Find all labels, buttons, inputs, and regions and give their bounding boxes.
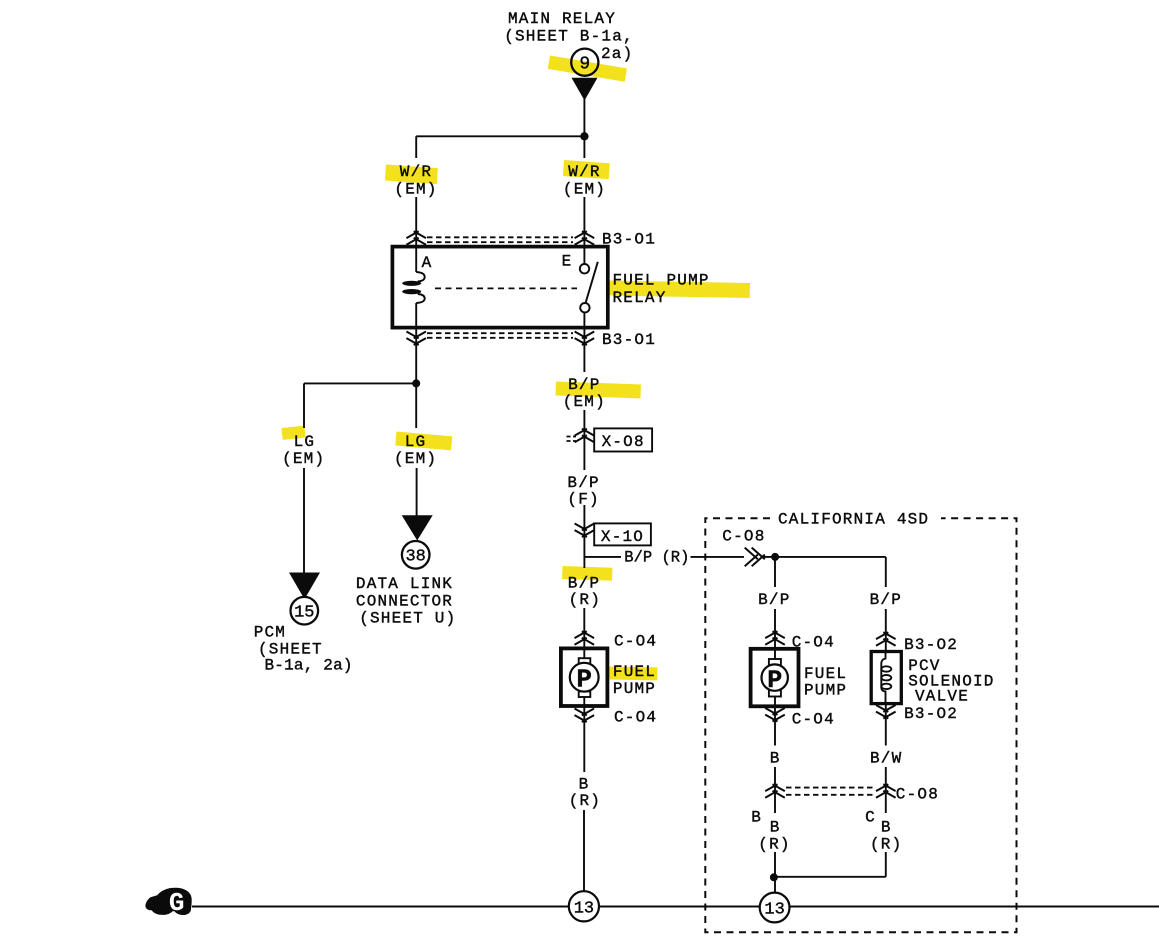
relay box FUEL PUMP RELAY xyxy=(392,247,607,328)
svg-text:C-O4: C-O4 xyxy=(614,709,657,727)
wire CA left B segment through C-08 chevron xyxy=(774,767,776,813)
connector circle 9 to main relay xyxy=(571,49,598,76)
svg-text:X-O8: X-O8 xyxy=(602,433,645,451)
connector chevron B3-02 below PCV valve xyxy=(876,705,896,719)
PCV solenoid valve box xyxy=(871,652,901,704)
connector chevron X-08 xyxy=(575,429,595,443)
wire right W/R segment down to relay xyxy=(583,197,585,247)
svg-text:C: C xyxy=(865,809,876,827)
svg-text:X-1O: X-1O xyxy=(601,528,644,546)
svg-text:(EM): (EM) xyxy=(282,450,325,468)
fuel pump box xyxy=(561,648,608,706)
junction node California branch xyxy=(771,553,779,561)
svg-text:(SHEET B-1a,: (SHEET B-1a, xyxy=(504,28,634,46)
svg-text:B3-O1: B3-O1 xyxy=(602,231,656,249)
svg-text:C-O4: C-O4 xyxy=(792,711,835,729)
svg-text:PCM: PCM xyxy=(254,624,286,642)
ground symbol car body xyxy=(145,888,191,915)
CA fuel pump lower terminal xyxy=(769,690,781,696)
svg-text:PUMP: PUMP xyxy=(613,680,656,698)
svg-text:B3-O2: B3-O2 xyxy=(904,705,958,723)
connector chevron C-04 above CA fuel pump xyxy=(765,631,785,645)
connector chevrons B3-01 left bottom xyxy=(406,332,426,346)
svg-text:FUEL: FUEL xyxy=(804,665,847,683)
fuel pump lower terminal xyxy=(579,691,591,697)
svg-text:CALIFORNIA 4SD: CALIFORNIA 4SD xyxy=(778,511,929,529)
svg-text:B: B xyxy=(770,750,781,768)
svg-text:B3-O2: B3-O2 xyxy=(904,636,958,654)
arrow from main relay xyxy=(572,78,598,101)
svg-text:MAIN RELAY: MAIN RELAY xyxy=(508,10,616,28)
svg-text:B/P (R): B/P (R) xyxy=(624,549,689,567)
highlight marker over FUEL PUMP RELAY label xyxy=(607,281,750,298)
wire LG segment to PCM arrow xyxy=(303,468,305,573)
wire B/P (R) horizontal entering California box xyxy=(691,556,745,558)
dashed pair linking B3-01 top connectors xyxy=(427,237,573,242)
highlight marker over FUEL label of fuel pump xyxy=(607,667,657,681)
California 4SD dashed enclosure xyxy=(705,518,1016,932)
svg-text:(R): (R) xyxy=(758,836,790,854)
svg-text:DATA LINK: DATA LINK xyxy=(356,575,453,593)
svg-text:B: B xyxy=(770,819,781,837)
wire B/P (R) segment to fuel pump xyxy=(583,608,585,648)
arrow to PCM xyxy=(289,573,320,600)
svg-text:B/P: B/P xyxy=(870,591,902,609)
stub dashes left of X-08 chevron xyxy=(567,437,577,442)
svg-text:13: 13 xyxy=(764,901,784,920)
wire relay coil lead inside box xyxy=(415,247,417,272)
fuel pump upper terminal xyxy=(579,658,591,664)
svg-text:C-O8: C-O8 xyxy=(722,528,765,546)
svg-text:(R): (R) xyxy=(870,836,902,854)
svg-text:PUMP: PUMP xyxy=(804,682,847,700)
wire LG branch to data link connector xyxy=(415,383,417,428)
wire below relay bottom contact xyxy=(583,311,585,372)
svg-text:B3-O1: B3-O1 xyxy=(602,331,656,349)
svg-text:B-1a, 2a): B-1a, 2a) xyxy=(265,657,353,675)
wire LG branch to PCM xyxy=(303,383,305,428)
connector chevrons B3-01 right top xyxy=(575,231,595,245)
PCV solenoid coil xyxy=(881,652,885,704)
junction node CA ground branch xyxy=(770,873,778,881)
wire CA left B (R) segment to junction dot xyxy=(774,852,776,893)
wire B (R) segment to ground circle 13 xyxy=(583,810,585,891)
wire CA right B/P segment to PCV valve xyxy=(885,609,887,652)
connector chevron C-04 below CA fuel pump xyxy=(765,708,785,722)
svg-text:15: 15 xyxy=(294,604,314,623)
CA fuel pump upper terminal xyxy=(769,659,781,665)
highlight marker over right LG label xyxy=(395,432,452,451)
relay top contact xyxy=(580,264,589,273)
arrow to data link connector xyxy=(402,515,433,540)
connector chevron B3-02 above PCV valve xyxy=(876,632,896,646)
wire inside fuel pump box to terminals xyxy=(583,650,585,706)
svg-text:B/P: B/P xyxy=(758,591,790,609)
svg-text:(EM): (EM) xyxy=(563,181,606,199)
highlight marker over left LG label xyxy=(282,426,306,440)
ground bus wire right section to page edge xyxy=(790,906,1159,908)
highlight marker over B/P (R) label xyxy=(562,566,612,581)
highlight marker over B/P (EM) label xyxy=(556,382,641,399)
wire below PCV valve xyxy=(885,704,887,746)
svg-text:P: P xyxy=(576,665,592,695)
wire junction horizontal branch at top xyxy=(416,135,584,137)
relay switch blade xyxy=(586,262,598,302)
connector chevron X-10 xyxy=(575,524,595,538)
ground bus wire left of circle 13 xyxy=(192,906,569,908)
highlight marker over left W/R label xyxy=(385,165,438,185)
svg-text:G: G xyxy=(169,888,185,918)
wire CA right B (R) segment to bottom corner xyxy=(885,852,887,877)
svg-text:13: 13 xyxy=(574,899,594,918)
wire B/P (F) segment through X-10 xyxy=(583,505,585,568)
wire B/P (R) horizontal toward California circuit xyxy=(584,556,621,558)
fuel pump motor circle xyxy=(570,663,599,692)
ground circle 13 CA xyxy=(760,893,790,923)
svg-text:(EM): (EM) xyxy=(394,450,437,468)
ground bus wire between ground circles xyxy=(599,906,760,908)
svg-text:(R): (R) xyxy=(569,591,601,609)
svg-text:(F): (F) xyxy=(567,491,599,509)
svg-text:CONNECTOR: CONNECTOR xyxy=(356,593,453,611)
wire CA right B/W segment through C-08 chevron xyxy=(885,767,887,813)
junction node at top branch xyxy=(580,132,588,140)
svg-text:VALVE: VALVE xyxy=(915,688,969,706)
wire inside CA fuel pump box to terminals xyxy=(774,650,776,706)
svg-text:C-O4: C-O4 xyxy=(792,634,835,652)
relay coil winding xyxy=(416,272,425,303)
connector circle 38 xyxy=(402,541,430,569)
svg-text:B: B xyxy=(751,809,762,827)
wire below relay coil to junction xyxy=(415,303,417,383)
connector chevron C-08 CA right xyxy=(876,784,896,798)
wire below CA fuel pump xyxy=(774,706,776,745)
label box X-10 xyxy=(594,523,651,545)
svg-text:E: E xyxy=(562,253,573,271)
connector circle 15 xyxy=(291,597,319,625)
wire CA right branch down from corner xyxy=(885,557,887,587)
connector chevrons B3-01 right bottom xyxy=(575,332,595,346)
highlight marker over connector circle 9 xyxy=(548,56,627,82)
connector chevron C-04 below fuel pump xyxy=(575,709,595,723)
relay internal dashed link xyxy=(435,287,577,289)
connector chevron C-08 CA left xyxy=(765,784,785,798)
svg-text:P: P xyxy=(767,666,782,695)
svg-text:A: A xyxy=(422,254,433,272)
wire junction horizontal branch below relay xyxy=(304,382,416,384)
svg-text:2a): 2a) xyxy=(601,45,633,63)
wire B/P (EM) segment through X-08 xyxy=(583,410,585,470)
wire CA bottom horizontal joining branches xyxy=(774,876,886,878)
wire CA left B/P segment to CA fuel pump xyxy=(774,609,776,649)
wire CA left branch down from junction xyxy=(774,557,776,587)
connector chevron C-08 into California circuit xyxy=(745,548,765,567)
wire below fuel pump xyxy=(583,706,585,772)
wire from C-08 chevron to junction dot xyxy=(763,556,886,558)
svg-text:C-O4: C-O4 xyxy=(614,633,657,651)
connector chevron C-04 above fuel pump xyxy=(575,631,595,645)
ground circle 13 main xyxy=(569,891,599,921)
relay bottom contact xyxy=(580,303,589,312)
highlight marker over right W/R label xyxy=(563,160,610,179)
wire relay pin E inside box to top contact xyxy=(583,247,585,265)
dashed pair linking C-08 connectors xyxy=(786,788,875,795)
svg-text:B: B xyxy=(881,819,892,837)
wire left branch below top corner xyxy=(415,136,417,158)
label box X-08 xyxy=(594,428,652,451)
svg-text:C-O8: C-O8 xyxy=(896,786,939,804)
connector chevrons B3-01 left top xyxy=(406,231,426,245)
svg-text:B/P: B/P xyxy=(567,474,599,492)
wire from main relay arrow to junction xyxy=(583,99,585,158)
wire left W/R segment down to relay xyxy=(415,197,417,247)
CA fuel pump motor circle xyxy=(762,664,788,690)
CA fuel pump box xyxy=(751,649,799,707)
junction node below relay xyxy=(412,379,420,387)
svg-text:B: B xyxy=(579,776,590,794)
wire LG segment to DLC arrow xyxy=(416,468,418,516)
svg-text:38: 38 xyxy=(405,548,425,567)
dashed pair linking B3-01 bottom connectors xyxy=(427,333,573,338)
svg-text:(SHEET U): (SHEET U) xyxy=(359,610,456,628)
svg-text:(R): (R) xyxy=(569,792,601,810)
svg-text:B/W: B/W xyxy=(870,750,902,768)
